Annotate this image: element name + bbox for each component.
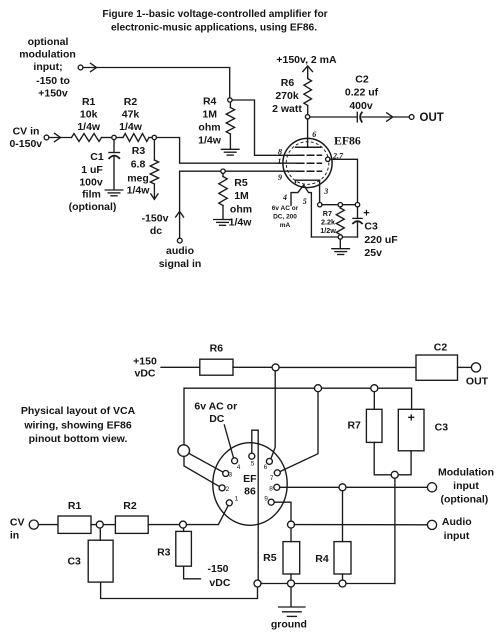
svg-text:6: 6 [312, 130, 316, 139]
label R6 bottom [210, 343, 224, 355]
label C3 bottom [435, 422, 449, 434]
svg-text:9: 9 [264, 496, 268, 503]
svg-text:47k: 47k [122, 109, 140, 121]
label R4 value [198, 96, 222, 147]
svg-text:86: 86 [244, 485, 256, 497]
wire DC pointer to pin 4 [224, 425, 233, 458]
svg-text:DC, 200: DC, 200 [273, 214, 297, 221]
label OUT [420, 112, 444, 124]
tube inner shield dotted [286, 142, 329, 185]
svg-text:CV: CV [10, 517, 25, 529]
node plate bottom [272, 364, 279, 371]
capacitor C2 box [416, 355, 458, 380]
svg-text:signal in: signal in [159, 258, 202, 270]
wire heater-R7-C3 bottom [311, 237, 357, 249]
wire R2 to R3 node [148, 524, 179, 526]
svg-text:0-150v: 0-150v [9, 138, 42, 150]
pin 2,7 terminal [326, 157, 330, 161]
terminal CV bottom [29, 520, 38, 529]
wire cathode node row [322, 204, 355, 206]
svg-text:-150: -150 [207, 563, 228, 575]
tube grid dashes pin 9 [297, 170, 321, 172]
svg-text:R7: R7 [347, 420, 361, 432]
terminal modulation input [78, 63, 96, 71]
label R5 bottom [263, 552, 277, 564]
label +150 vDC bottom [133, 355, 157, 379]
wire 6v loop top [184, 388, 412, 445]
svg-text:8: 8 [269, 485, 273, 492]
label EF 86 center [243, 473, 257, 498]
label R3 bottom [157, 547, 171, 559]
svg-text:6.8: 6.8 [131, 159, 146, 171]
wire pin 8 to modulation terminal [280, 486, 428, 488]
wire R5 verticals [290, 528, 292, 580]
pin 9 [268, 499, 274, 505]
svg-text:Physical layout of VCA: Physical layout of VCA [21, 405, 136, 417]
label R7 bottom [347, 420, 361, 432]
node R1-R2 junction [112, 135, 116, 139]
svg-text:+150v: +150v [38, 88, 68, 100]
terminal OUT bottom [471, 363, 480, 372]
svg-text:mA: mA [280, 222, 291, 229]
svg-text:4: 4 [282, 193, 287, 202]
svg-text:270k: 270k [275, 90, 299, 102]
pin 5 [249, 453, 255, 459]
svg-text:OUT: OUT [466, 376, 489, 388]
label C3 plus [363, 207, 369, 219]
svg-text:2 watt: 2 watt [272, 103, 302, 115]
wire C2 to OUT terminal [458, 366, 472, 368]
node R1-R2 bottom [96, 521, 103, 528]
svg-text:R2: R2 [124, 96, 138, 108]
svg-text:R6: R6 [210, 343, 224, 355]
pin number labels bottom [226, 461, 274, 503]
ground symbol bottom [279, 607, 305, 616]
pin labels top tube [277, 130, 344, 206]
terminal OUT [409, 115, 414, 120]
wire R3 verticals [184, 528, 201, 579]
svg-text:in: in [10, 530, 19, 542]
tube EF86 envelope [283, 138, 332, 187]
capacitor C3 [353, 207, 362, 237]
wire R2 node to tube pin 1 [157, 138, 297, 164]
svg-text:0.22 uf: 0.22 uf [345, 87, 379, 99]
svg-text:modulation: modulation [19, 49, 76, 61]
wire node to C2 box [279, 366, 416, 368]
node cathode left [318, 203, 322, 207]
capacitor C3 box bottom-fig [398, 409, 424, 451]
svg-text:electronic-music applications,: electronic-music applications, using EF8… [111, 23, 317, 34]
node R7 top bottom-fig [371, 385, 378, 392]
label C3 lower-left [67, 556, 81, 568]
svg-text:1 uF: 1 uF [81, 164, 103, 176]
svg-text:6v AC or: 6v AC or [272, 205, 299, 212]
node R3 top bottom-fig [180, 521, 187, 528]
terminal modulation bottom [427, 483, 436, 492]
svg-text:OUT: OUT [420, 112, 444, 124]
svg-text:meg: meg [127, 173, 149, 185]
svg-text:R1: R1 [68, 500, 82, 512]
wire node to tube pin 8 [232, 100, 296, 155]
node R4 top bottom-fig [339, 484, 346, 491]
wire pin7 riser [280, 392, 318, 472]
svg-text:3: 3 [323, 187, 328, 196]
pin 1 [226, 500, 232, 506]
svg-text:5: 5 [303, 197, 307, 206]
svg-text:+: + [408, 411, 415, 425]
label EF86 [334, 134, 361, 148]
svg-text:1/4w: 1/4w [127, 185, 151, 197]
svg-text:R6: R6 [281, 77, 295, 89]
wire audio line [295, 524, 428, 526]
ground R4 [221, 149, 239, 155]
svg-text:C2: C2 [434, 342, 448, 354]
node R4 bottom [339, 580, 346, 587]
svg-text:CV in: CV in [13, 126, 40, 138]
wire anode [307, 119, 309, 147]
resistor R3 box bottom-fig [176, 531, 192, 566]
svg-text:R2: R2 [123, 500, 137, 512]
tube EF86 socket bottom view [213, 443, 287, 526]
svg-text:7: 7 [270, 475, 274, 482]
ground R5 [214, 220, 232, 226]
resistor R1 box [58, 516, 91, 533]
svg-text:input: input [444, 530, 470, 542]
pin 3 [223, 471, 229, 477]
label audio input [442, 516, 472, 542]
node ground bus left [254, 580, 261, 587]
svg-text:ohm: ohm [198, 122, 220, 134]
svg-text:1M: 1M [234, 190, 249, 202]
label C2 value [345, 74, 379, 113]
pin 2 [219, 485, 225, 491]
svg-text:1/4w: 1/4w [77, 121, 101, 133]
label R1 bottom [68, 500, 82, 512]
svg-text:EF86: EF86 [334, 134, 361, 148]
node pin7 riser top [315, 385, 322, 392]
wire pin 9 to audio line [274, 502, 291, 521]
svg-text:R3: R3 [157, 547, 171, 559]
svg-text:8: 8 [278, 148, 282, 157]
label CV in bottom [10, 517, 25, 542]
terminal audio signal in [177, 238, 182, 243]
label R5 value [229, 177, 253, 229]
wire R1 to node to R2 [91, 524, 115, 526]
svg-text:R5: R5 [263, 552, 277, 564]
svg-text:25v: 25v [364, 247, 382, 259]
svg-text:1: 1 [277, 157, 281, 166]
pin 6 [266, 458, 272, 464]
label -150 vDC bottom [207, 563, 230, 589]
wire +150v arrow [303, 66, 313, 79]
wire node to pin 1 [187, 506, 229, 525]
svg-text:vDC: vDC [134, 368, 155, 380]
node R5 top [221, 169, 225, 173]
svg-text:C1: C1 [90, 151, 104, 163]
svg-text:6v AC or: 6v AC or [194, 401, 237, 413]
wire C3 box bottom [398, 451, 411, 475]
svg-text:1: 1 [235, 496, 239, 503]
svg-text:R5: R5 [234, 177, 248, 189]
tube cathode [296, 180, 320, 202]
svg-text:100v: 100v [79, 177, 103, 189]
capacitor C1 [109, 140, 120, 190]
svg-text:1/4w: 1/4w [119, 121, 143, 133]
terminal 6v loop [178, 445, 190, 457]
svg-text:pinout bottom view.: pinout bottom view. [29, 433, 128, 445]
svg-text:1/4w: 1/4w [229, 217, 253, 229]
label C3 plus bottom [408, 411, 415, 425]
svg-text:R4: R4 [315, 553, 329, 565]
label R2 bottom [123, 500, 137, 512]
wire R6 to node [233, 366, 272, 368]
wire plate to C2 [310, 116, 357, 118]
resistor R4 [226, 102, 234, 149]
wire plate node to pin 6 [271, 371, 275, 459]
node R2 right [152, 135, 156, 139]
label C3 value [364, 221, 398, 260]
resistor R4 box bottom-fig [334, 542, 351, 574]
node audio pin9 [288, 521, 295, 528]
label R4 bottom [315, 553, 329, 565]
pin 7 [274, 470, 280, 476]
svg-text:Modulation: Modulation [438, 466, 494, 478]
tube grid dashes pin 1 [297, 162, 321, 164]
label physical layout caption [21, 405, 136, 445]
node R5 bottom [288, 580, 295, 587]
label +150v 2mA [276, 54, 337, 66]
wire 6v loop lower + diagonal to pin 2 [184, 456, 220, 486]
resistor R3 [150, 140, 158, 200]
title Figure 1 [102, 9, 327, 34]
svg-text:-150 to: -150 to [36, 75, 70, 87]
capacitor C3 box lower-left [88, 540, 113, 582]
svg-text:input;: input; [33, 61, 62, 73]
wire pin 9 line [180, 170, 297, 172]
wire R7 box verticals [374, 392, 391, 475]
node R7C3 bottom junction [391, 471, 398, 478]
svg-text:1/4w: 1/4w [198, 135, 222, 147]
wire pin 2,7 to cathode node [330, 159, 358, 202]
label R6 value [272, 77, 302, 115]
wire R4 verticals [342, 491, 344, 580]
label C1 value [69, 151, 117, 213]
resistor R7 box bottom-fig [366, 409, 382, 442]
svg-text:Audio: Audio [442, 516, 472, 528]
svg-text:R1: R1 [82, 96, 96, 108]
resistor R5 [219, 173, 227, 219]
svg-text:2: 2 [226, 486, 230, 493]
pin 8 [274, 484, 280, 490]
resistor R6 box [200, 359, 233, 375]
svg-text:-150v: -150v [142, 213, 169, 225]
wire terminal to pin 3 [189, 453, 223, 472]
svg-text:3: 3 [228, 472, 232, 479]
svg-text:1/2w: 1/2w [320, 226, 336, 235]
ground C1 [105, 190, 123, 196]
label 6v AC or DC bottom [194, 401, 237, 426]
svg-text:+: + [363, 207, 369, 219]
label audio signal in [159, 245, 202, 270]
svg-text:+150: +150 [133, 355, 157, 367]
svg-text:C3: C3 [67, 556, 81, 568]
svg-text:wiring, showing EF86: wiring, showing EF86 [23, 420, 132, 432]
label 6v AC DC 200 mA [272, 205, 299, 229]
node R4 top [228, 98, 232, 102]
svg-text:C3: C3 [364, 221, 378, 233]
label ground [271, 619, 307, 631]
svg-text:C3: C3 [435, 422, 449, 434]
svg-text:10k: 10k [80, 109, 98, 121]
svg-text:input: input [453, 480, 479, 492]
tube anode plate [296, 146, 321, 148]
svg-text:220 uF: 220 uF [364, 234, 398, 246]
resistor R6 [304, 79, 312, 115]
svg-text:(optional): (optional) [69, 201, 117, 213]
ground cathode [332, 249, 350, 255]
svg-text:5: 5 [251, 461, 255, 468]
wire R7C3 node to ground bus [394, 478, 396, 583]
pin 4 [232, 458, 238, 464]
svg-text:dc: dc [150, 225, 162, 237]
label OUT bottom [466, 376, 489, 388]
svg-text:(optional): (optional) [440, 494, 488, 506]
svg-text:vDC: vDC [209, 577, 230, 589]
svg-text:6: 6 [264, 464, 268, 471]
resistor R2 [116, 134, 152, 142]
capacitor C2 [357, 112, 362, 122]
svg-text:4: 4 [237, 464, 241, 471]
wire modulation to R4 [83, 68, 230, 98]
label R3 value [127, 145, 151, 197]
svg-text:1M: 1M [202, 109, 217, 121]
label C2 bottom [434, 342, 448, 354]
svg-text:9: 9 [278, 173, 282, 182]
wire C2 to OUT [362, 113, 409, 121]
wire node to C3 box [99, 528, 101, 540]
terminal audio bottom [427, 520, 436, 529]
resistor R7 [336, 207, 344, 235]
label CV in [9, 126, 42, 150]
node R7 top [338, 203, 342, 207]
label optional modulation input [19, 36, 76, 100]
wire ground stem [290, 587, 292, 607]
svg-text:R4: R4 [203, 96, 217, 108]
svg-text:R3: R3 [132, 145, 146, 157]
svg-text:C2: C2 [355, 74, 369, 86]
svg-text:EF: EF [243, 473, 257, 485]
svg-text:DC: DC [209, 413, 225, 425]
svg-text:audio: audio [166, 245, 194, 257]
wire pin 5 key to ground bus [252, 430, 258, 580]
tube heater [291, 185, 311, 237]
svg-text:400v: 400v [349, 100, 373, 112]
label R1 value [77, 96, 101, 133]
node C3 top [355, 203, 359, 207]
svg-text:optional: optional [28, 36, 69, 48]
wire +150 to R6 [161, 366, 200, 368]
resistor R5 box bottom-fig [283, 542, 300, 574]
node R6 plate [305, 115, 309, 119]
resistor R1 [72, 134, 112, 142]
svg-text:Figure 1--basic voltage-contro: Figure 1--basic voltage-controlled ampli… [102, 9, 327, 20]
resistor R2 box [115, 516, 148, 533]
terminal CV in [44, 133, 60, 141]
wire C3 bottom to ground bus [101, 582, 258, 598]
wire ground bus [261, 583, 395, 585]
node cathode bottom [338, 235, 342, 239]
svg-text:ohm: ohm [230, 204, 252, 216]
label R2 value [119, 96, 143, 133]
tube grid dashes pin 8 [297, 154, 321, 156]
svg-text:+150v, 2 mA: +150v, 2 mA [276, 54, 337, 66]
wire CV to R1 [49, 137, 72, 139]
label -150v dc [142, 213, 169, 238]
svg-text:ground: ground [271, 619, 307, 631]
svg-text:film: film [82, 189, 101, 201]
wire audio input riser [176, 171, 184, 238]
label R7 value [320, 209, 336, 235]
wire CV to R1 box [38, 524, 58, 526]
label modulation input optional [438, 466, 494, 505]
